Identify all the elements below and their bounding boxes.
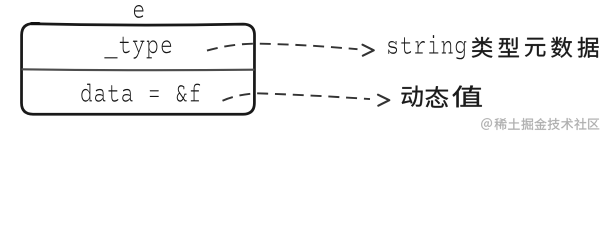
label: 动态值 (dynamic value) xyxy=(402,86,482,108)
label: 类型元数据 (type metadata) xyxy=(472,37,599,58)
arrowhead 2 xyxy=(378,95,389,106)
field _type xyxy=(104,36,172,59)
interface value box e (rounded rect) xyxy=(22,24,255,115)
arrowhead 1 xyxy=(363,45,374,56)
watermark @稀土掘金技术社区 xyxy=(481,118,599,130)
label: string (mono) xyxy=(388,35,467,60)
field divider line xyxy=(22,68,255,71)
sketch overlap tick top-left xyxy=(32,22,40,25)
dashed arrow from _type to metadata label xyxy=(207,44,358,51)
label e (variable name above box) xyxy=(134,5,144,19)
field data = &amp;f xyxy=(81,83,200,102)
dashed arrow from data to dynamic value label xyxy=(223,93,371,100)
